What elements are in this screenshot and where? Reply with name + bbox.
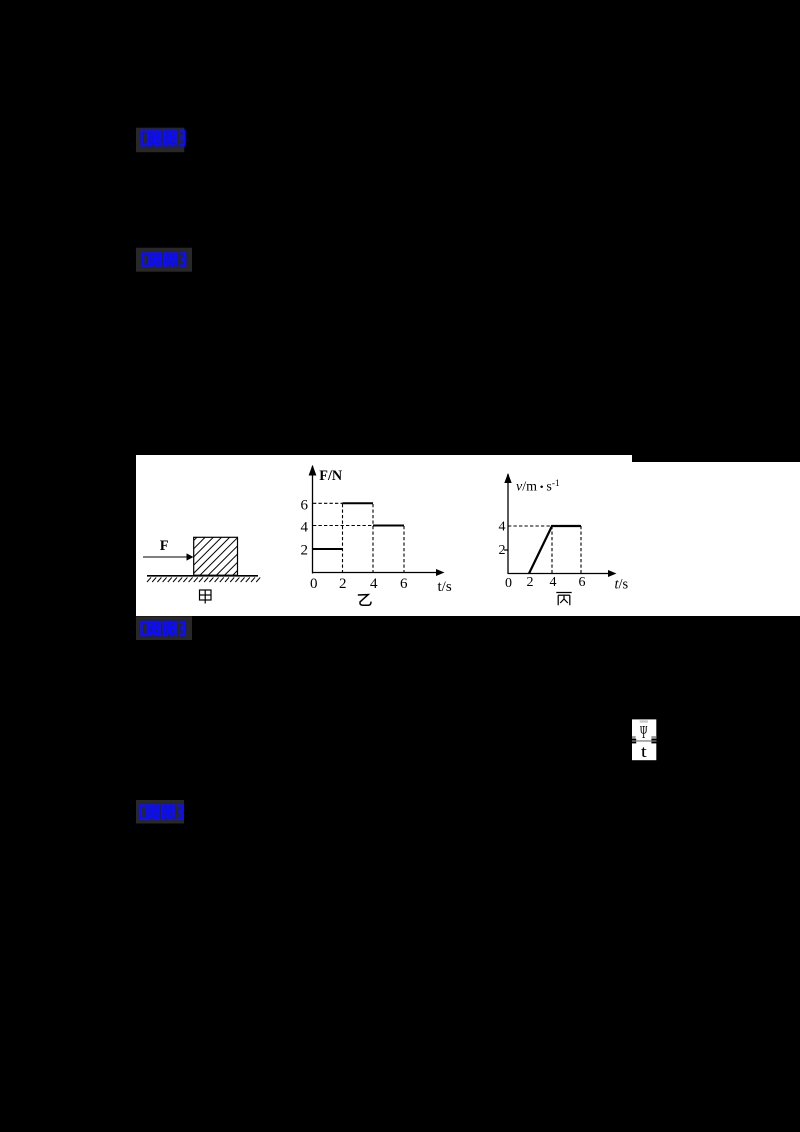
svg-text:4: 4 xyxy=(301,520,309,536)
svg-text:2: 2 xyxy=(527,575,534,590)
svg-text:F/N: F/N xyxy=(319,468,343,484)
svg-text:F: F xyxy=(160,538,169,554)
svg-text:0: 0 xyxy=(505,576,512,591)
svg-text:t: t xyxy=(641,743,648,762)
svg-text:6: 6 xyxy=(579,575,586,590)
svg-text:6: 6 xyxy=(301,498,309,514)
svg-text:4: 4 xyxy=(370,576,378,592)
svg-text:2: 2 xyxy=(301,543,309,559)
svg-text:6: 6 xyxy=(400,576,408,592)
svg-text:4: 4 xyxy=(499,520,506,535)
svg-text:2: 2 xyxy=(339,576,347,592)
svg-text:t/s: t/s xyxy=(438,579,452,595)
svg-text:4: 4 xyxy=(550,575,557,590)
svg-text:t/s: t/s xyxy=(615,577,629,593)
svg-text:2: 2 xyxy=(499,543,506,558)
svg-text:0: 0 xyxy=(310,576,318,592)
svg-text:Ψ: Ψ xyxy=(640,723,647,743)
